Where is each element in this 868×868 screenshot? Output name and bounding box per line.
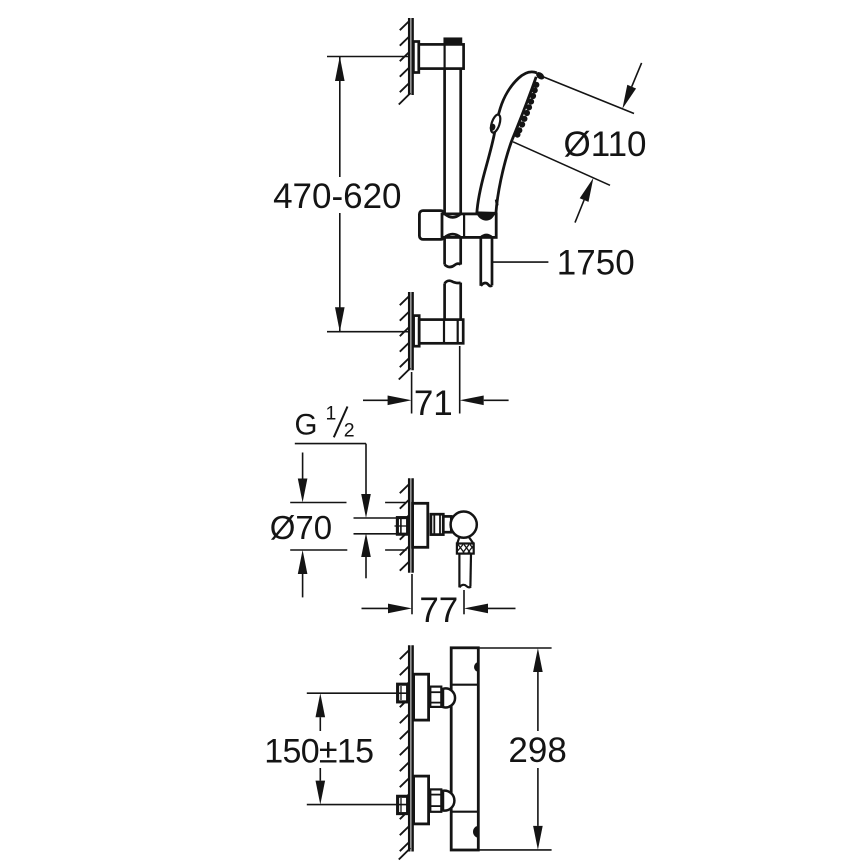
union hex nut: [431, 514, 443, 534]
dimension 77 extension lines: [412, 574, 464, 614]
shower hose upper part: [481, 237, 492, 286]
svg-text:470-620: 470-620: [273, 177, 401, 216]
dimension 1750 leader line: [493, 261, 549, 263]
thermostat body: [451, 648, 478, 850]
svg-text:1750: 1750: [557, 244, 635, 283]
wall top hatching: [399, 21, 411, 105]
dimension 470-620 bottom extension line: [327, 331, 409, 333]
bottom union ball: [443, 791, 454, 811]
shower head tip dark edge: [535, 71, 546, 82]
svg-text:Ø70: Ø70: [270, 509, 332, 546]
dark cap on top of rail: [444, 38, 461, 44]
label G 1/2 leader: [295, 444, 366, 579]
dimension 470-620 dimension line: [339, 57, 341, 332]
svg-text:Ø110: Ø110: [563, 125, 646, 164]
svg-text:G: G: [295, 408, 318, 441]
bottom union inlet stub: [398, 796, 408, 813]
bottom union escutcheon: [414, 776, 429, 824]
dimension Ø110 arrows and tails: [575, 63, 642, 223]
union inlet stub G1/2: [397, 518, 407, 535]
union hose stub: [459, 554, 471, 588]
holder hose notch: [481, 235, 492, 237]
dimension 298 dimension line and arrows: [537, 672, 539, 826]
hand shower head outline: [477, 72, 537, 214]
dimension 77 dimension line and arrows: [362, 607, 516, 609]
union escutcheon Ø70: [413, 503, 428, 547]
dimension Ø70 extension lines: [290, 503, 406, 551]
svg-text:2: 2: [344, 419, 355, 441]
svg-text:71: 71: [414, 384, 453, 423]
union connector piece: [443, 516, 451, 532]
dimension Ø70 dimension line and arrows: [302, 453, 304, 598]
dimension Ø110 extension lines: [513, 75, 634, 186]
dimension 150±15 dimension line and arrows: [319, 717, 321, 780]
arm of top rail bracket: [419, 44, 464, 68]
svg-text:77: 77: [419, 591, 458, 630]
wall lower (shower rail lower bracket wall): [409, 292, 412, 370]
dimension 470-620 top extension line: [327, 56, 409, 58]
svg-text:1: 1: [326, 402, 337, 424]
wall middle hatching: [400, 484, 409, 571]
spray mode button on head: [489, 113, 502, 133]
knob marker bottom: [473, 826, 479, 838]
top union hex nut: [430, 687, 441, 707]
rail slider holder knob: [419, 211, 444, 240]
label G 1/2: [295, 402, 355, 441]
arm of lower rail bracket: [419, 320, 463, 344]
knob marker top: [474, 662, 479, 672]
top union escutcheon: [414, 674, 429, 720]
G 1/2 thread extension lines: [354, 518, 398, 534]
escutcheon of top rail bracket: [413, 42, 418, 73]
svg-text:298: 298: [508, 731, 566, 770]
dimension 71 dimension line and arrows: [363, 399, 509, 401]
wall bottom (thermostat wall): [409, 645, 412, 851]
wall middle (union wall): [409, 478, 412, 572]
wall bottom hatching: [399, 650, 411, 860]
spray face nozzle band: [514, 82, 539, 138]
dimension 71 extension lines: [412, 346, 460, 414]
holder socket redraw crescent over body top: [476, 213, 495, 221]
union knurled nut: [457, 544, 474, 554]
union ball outlet: [451, 511, 477, 537]
dimension 298 extension lines: [478, 648, 551, 850]
holder dark socket crescent: [476, 211, 496, 220]
shower rail middle segment with break: [445, 237, 461, 319]
wall top (shower rail upper bracket wall): [409, 18, 412, 95]
svg-text:150±15: 150±15: [264, 732, 373, 770]
top union inlet stub: [398, 684, 408, 702]
bottom union hex nut: [430, 789, 441, 811]
holder rail notches: [445, 214, 461, 218]
shower rail upper segment: [445, 69, 461, 214]
dark dash on handle right edge: [496, 200, 497, 206]
rail slider holder body: [442, 214, 496, 238]
wall lower hatching: [399, 296, 411, 380]
escutcheon of lower rail bracket: [414, 316, 420, 347]
dimension 470-620 arrows: [335, 57, 345, 332]
dimension 150±15 extension lines: [307, 693, 409, 804]
top union ball: [443, 688, 455, 707]
union hose nipple neck: [457, 537, 459, 544]
